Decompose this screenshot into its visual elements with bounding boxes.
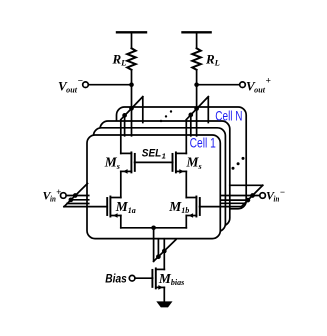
wire: cellN left drain stub [142,97,144,122]
wire Vout- to RL node [89,84,132,86]
wire Vin+ stub cell3 [67,203,89,205]
wire tail diagonal [154,240,176,262]
wire: left drain bus diagonal [121,97,143,120]
wire Vin+ stub cell2 [71,199,89,201]
wire tail stub cell2 [157,239,159,257]
wire Mbias gate [135,277,152,279]
node dot right drain diagonal cell2 [188,113,193,118]
transistor Ms left (gate at right) [130,152,132,172]
wire RL left to node [131,70,133,85]
arrow Ms right source [179,169,184,174]
wire Vin- stub cell2 [221,199,248,201]
vdd rail right [183,31,211,33]
wire: cell1 right Ms drain [185,120,187,153]
transistor Ms right (gate at left) [175,152,177,172]
terminal Bias [129,275,135,281]
wire M1b gate to Vin- diagonal [200,206,242,208]
wire Vin- terminal line [221,195,260,197]
vdd rail left [117,31,146,33]
node dot source bus [151,226,156,231]
node dot left drain diagonal cell2 [122,113,127,118]
arrow M1a source [113,213,118,218]
transistor M1b (gate at right) [195,197,197,217]
wire Vin+ terminal line [66,195,89,197]
node dot right drain diagonal x RL wire [194,106,199,111]
ellipsis dots top center [160,120,162,122]
wire source bus [121,227,187,229]
wire vdd to RL left [131,32,133,48]
wire: cell2 left drain stub [124,116,126,136]
wire: cell2 right drain stub [190,116,192,136]
node dot tail cell2 [156,254,161,259]
terminal Vin- [260,193,266,199]
node dot Vin+ cell2 [69,197,74,202]
wire SEL1 gate wire [135,161,173,163]
wire: right RL node down into cells [196,85,198,136]
svg-text:Cell N: Cell N [215,108,242,123]
wire tail stub cell3 [163,239,165,251]
ellipsis dots right side [232,167,235,170]
cell N box [117,107,247,209]
cell 2 box [94,128,226,232]
wire Vin+ diagonal [64,184,88,207]
wire M1a gate from Vin+ diagonal [64,206,107,208]
node dot Vin+ terminal [73,193,78,198]
wire: cell1 left Ms drain [120,120,122,153]
arrow Mbias source [158,285,163,290]
wire RL node to Vout+ [197,84,240,86]
wire Vin- diagonal [241,185,262,207]
arrow M1b source [188,213,193,218]
node dot Vin- terminal [250,193,255,198]
wire: cellN right drain stub [207,97,209,122]
node dot right RL [194,82,199,87]
transistor M1a (gate at left) [109,197,111,217]
ground symbol [156,301,172,307]
transistor Mbias (gate at left) [155,268,157,288]
node dot left drain diagonal x RL wire [129,106,134,111]
wire RL right to node [196,70,198,85]
node dot left RL [129,82,134,87]
wire Mbias drain [163,251,165,269]
terminal Vin+ [61,193,67,199]
svg-text:Bias: Bias [105,272,127,286]
node dot Vin- cell2 [246,198,251,203]
cell 1 box [87,135,220,239]
resistor RL right [192,48,201,70]
wire: right drain bus diagonal [186,97,208,120]
terminal Vout- [83,82,89,88]
wire vdd to RL right [196,32,198,48]
node dot tail cell3/Mbias [162,249,167,254]
wire Vin- stub cell3 [221,202,245,204]
wire tail down from bus [153,228,155,261]
wire: left RL node down into cells [131,85,133,136]
wire Vin- stub cellN [230,184,263,186]
resistor RL left [127,48,136,70]
cell 3 box [100,121,230,226]
terminal Vout+ [240,82,246,88]
svg-text:Cell 1: Cell 1 [190,136,216,151]
arrow Ms left source [123,169,128,174]
